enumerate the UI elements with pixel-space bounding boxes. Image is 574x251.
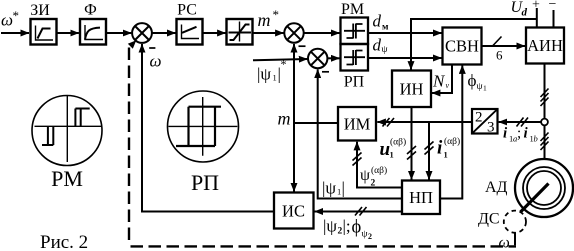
wire ZI to F bbox=[57, 32, 79, 34]
svg-text:3: 3 bbox=[487, 120, 495, 136]
three-phase slashes lower bbox=[541, 133, 549, 151]
motor AD (induction motor) bbox=[485, 159, 573, 217]
wire phi-psi1 NP to SVN bbox=[440, 65, 462, 198]
node Ud label plus minus bbox=[511, 0, 557, 19]
svg-text:ЗИ: ЗИ bbox=[30, 2, 50, 19]
svg-text:;: ; bbox=[517, 126, 521, 142]
motor shaft bbox=[521, 184, 549, 213]
wire J1 to RM relay block bbox=[304, 32, 340, 34]
wire u1 IN down to NP with double slash bbox=[411, 107, 413, 180]
svg-text:ψ: ψ bbox=[382, 45, 388, 55]
svg-text:|: | bbox=[342, 179, 345, 198]
svg-text:ϕ: ϕ bbox=[352, 218, 362, 238]
svg-text:|ψ: |ψ bbox=[322, 179, 336, 198]
block 2/3 (phase converter) bbox=[472, 109, 498, 136]
svg-text:*: * bbox=[13, 8, 20, 23]
wire node to 2/3 block with double slash bbox=[499, 121, 541, 123]
block IS (speed estimator) bbox=[274, 193, 314, 229]
svg-text:v: v bbox=[446, 81, 450, 90]
svg-text:РМ: РМ bbox=[341, 1, 364, 18]
svg-text:АД: АД bbox=[485, 179, 508, 196]
wire DS to dashed feedback bbox=[514, 233, 516, 246]
three-phase slashes upper bbox=[541, 89, 549, 107]
wire m IM to J1 and IS bbox=[294, 122, 338, 124]
minus sign at J2 bbox=[322, 71, 329, 73]
svg-text:1: 1 bbox=[273, 73, 277, 83]
svg-text:ИН: ИН bbox=[400, 80, 424, 99]
svg-text:*: * bbox=[273, 7, 280, 22]
svg-text:u: u bbox=[380, 139, 391, 160]
summing junction J2 bbox=[308, 49, 327, 68]
block limiter (saturation) bbox=[227, 19, 253, 45]
block RS (speed controller) bbox=[177, 2, 203, 45]
wire input to ZI bbox=[1, 32, 29, 34]
display circle RM (three-position relay characteristic) bbox=[32, 96, 102, 192]
svg-text:|;: |; bbox=[343, 217, 351, 236]
wire dm RM to SVN, label dm bbox=[368, 32, 442, 34]
svg-text:d: d bbox=[373, 12, 382, 31]
svg-text:|ψ: |ψ bbox=[323, 217, 337, 236]
svg-text:m: m bbox=[278, 109, 291, 129]
summing junction J1 bbox=[284, 23, 303, 42]
minus sign at J1 bbox=[299, 45, 306, 47]
svg-text:ψ: ψ bbox=[362, 230, 368, 240]
svg-text:м: м bbox=[382, 23, 389, 33]
wire AIN down to node bbox=[544, 64, 546, 119]
svg-text:1: 1 bbox=[444, 150, 448, 160]
svg-text:РС: РС bbox=[177, 2, 197, 19]
svg-text:ИМ: ИМ bbox=[344, 115, 371, 134]
wire 2/3 to IM with double slash and branch to NP bbox=[377, 121, 472, 123]
svg-text:(αβ): (αβ) bbox=[371, 165, 387, 176]
svg-text:1: 1 bbox=[390, 150, 394, 160]
svg-text:ИС: ИС bbox=[282, 202, 305, 221]
speed sensor DS dashed circle bbox=[478, 211, 526, 233]
wire dpsi RP to SVN, label dpsi bbox=[368, 57, 442, 59]
svg-text:ω: ω bbox=[499, 234, 510, 251]
svg-text:РП: РП bbox=[344, 74, 365, 91]
svg-text:ϕ: ϕ bbox=[468, 71, 477, 90]
svg-text:ψ: ψ bbox=[360, 167, 370, 184]
wire Nv SVN to IN bbox=[432, 65, 452, 94]
svg-text:СВН: СВН bbox=[445, 37, 479, 56]
dashed wire arrowhead into J0 bbox=[128, 40, 137, 49]
block AIN (inverter) bbox=[526, 28, 564, 64]
svg-text:m: m bbox=[258, 10, 271, 30]
node tap circle bbox=[541, 119, 548, 126]
block RP relay (flux hysteresis relay) bbox=[341, 44, 369, 91]
svg-text:i: i bbox=[503, 126, 508, 142]
wire estimated speed IS to J0 bbox=[142, 44, 274, 212]
svg-text:1: 1 bbox=[483, 84, 487, 93]
svg-text:Ф: Ф bbox=[84, 2, 97, 19]
wire limiter to sum J1, label m* bbox=[253, 32, 284, 34]
wire |psi1| NP to J2 bbox=[318, 69, 402, 198]
svg-text:(αβ): (αβ) bbox=[444, 136, 460, 147]
wire i1 branch down to NP with double slash bbox=[428, 122, 430, 180]
wire J2 to RP relay block bbox=[327, 57, 339, 59]
block NP (flux observer) bbox=[402, 181, 440, 215]
svg-text:НП: НП bbox=[409, 188, 433, 207]
svg-text:РМ: РМ bbox=[51, 166, 83, 191]
display circle RP (two-position relay characteristic) bbox=[168, 91, 239, 195]
svg-text:d: d bbox=[522, 7, 528, 19]
svg-text:(αβ): (αβ) bbox=[390, 137, 406, 148]
block SVN (switching table) bbox=[443, 28, 482, 65]
wire |psi2| phi-psi2 NP to IS with double slash bbox=[315, 211, 403, 213]
svg-text:ω: ω bbox=[1, 11, 13, 30]
svg-text:2: 2 bbox=[475, 110, 483, 126]
summing junction J0 bbox=[132, 23, 152, 43]
wire node down to motor bbox=[544, 126, 546, 160]
block IN (voltage identifier) bbox=[392, 71, 431, 108]
wire SVN to AIN with slash and 6 bbox=[482, 45, 526, 47]
svg-text:b: b bbox=[534, 134, 538, 144]
svg-text:ДС: ДС bbox=[478, 211, 500, 228]
svg-text:ω: ω bbox=[150, 52, 162, 71]
svg-text:i: i bbox=[524, 126, 529, 142]
svg-text:2: 2 bbox=[371, 179, 376, 189]
node i1a i1b label bbox=[503, 126, 538, 144]
block F (filter) bbox=[80, 2, 106, 45]
wire J0 to RS bbox=[152, 32, 176, 34]
svg-text:2: 2 bbox=[368, 232, 372, 241]
block ZI (ramp generator) bbox=[30, 2, 56, 45]
svg-text:6: 6 bbox=[496, 48, 503, 63]
wire RS to limiter bbox=[203, 32, 226, 34]
node omega* input label bbox=[1, 8, 19, 30]
dashed speed feedback wire from DS bbox=[128, 48, 130, 244]
wire Ud bus to IN bbox=[537, 8, 554, 28]
svg-text:Рис. 2: Рис. 2 bbox=[40, 232, 88, 251]
svg-text:РП: РП bbox=[191, 170, 219, 195]
minus sign at J0 bbox=[149, 47, 155, 49]
svg-text:d: d bbox=[373, 36, 382, 55]
block IM (torque estimator) bbox=[338, 107, 376, 141]
svg-text:N: N bbox=[432, 72, 446, 91]
svg-text:*: * bbox=[281, 57, 287, 71]
block RM relay (torque hysteresis relay) bbox=[341, 1, 369, 44]
wire F to sum J0 bbox=[106, 32, 131, 34]
node |psi1|* reference wire and label bbox=[253, 59, 307, 60]
svg-text:ψ: ψ bbox=[477, 82, 483, 92]
svg-text:АИН: АИН bbox=[527, 36, 563, 55]
svg-text:|ψ: |ψ bbox=[257, 65, 271, 84]
svg-text:i: i bbox=[437, 138, 443, 159]
wire psi2 NP to IM with double slash bbox=[357, 142, 402, 188]
